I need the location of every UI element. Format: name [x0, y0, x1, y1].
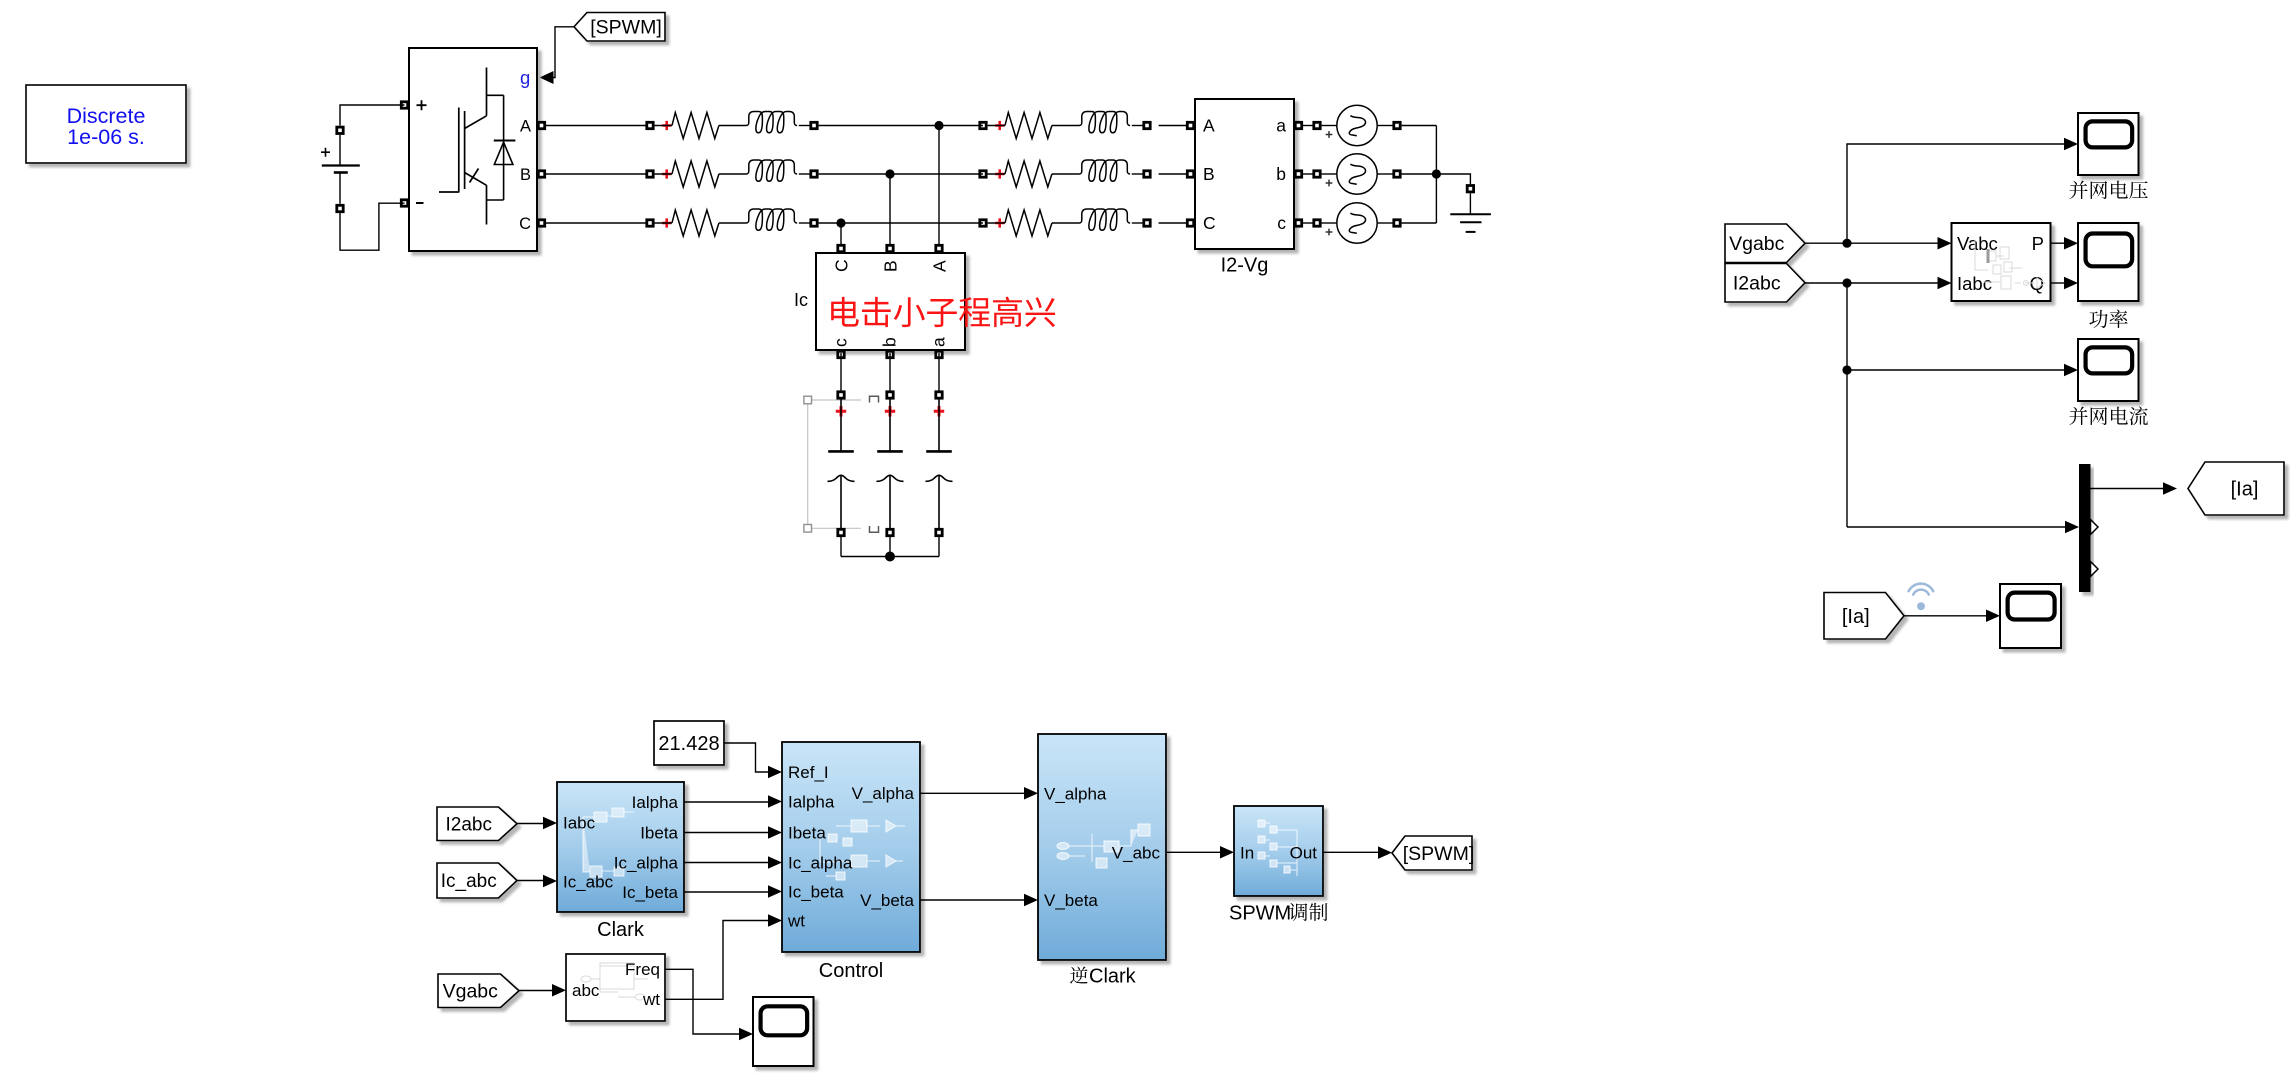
svg-text:Ibeta: Ibeta — [788, 824, 826, 843]
svg-text:V_alpha: V_alpha — [1044, 785, 1107, 804]
svg-text:Ic_alpha: Ic_alpha — [614, 854, 679, 873]
svg-text:Control: Control — [819, 960, 883, 982]
svg-text:Vgabc: Vgabc — [443, 981, 499, 1003]
svg-text:Ialpha: Ialpha — [788, 793, 835, 812]
svg-text:Iabc: Iabc — [563, 814, 596, 833]
svg-text:1e-06 s.: 1e-06 s. — [67, 125, 145, 149]
svg-text:B: B — [1203, 164, 1215, 184]
svg-text:[SPWM]: [SPWM] — [590, 17, 662, 39]
svg-text:V_beta: V_beta — [1044, 891, 1098, 910]
svg-text:c: c — [831, 338, 851, 347]
svg-text:C: C — [832, 259, 852, 272]
svg-text:[Ia]: [Ia] — [2231, 479, 2259, 501]
svg-text:Ic: Ic — [794, 290, 808, 310]
svg-text:In: In — [1240, 844, 1254, 863]
svg-text:Iabc: Iabc — [1957, 273, 1992, 294]
svg-text:c: c — [1277, 213, 1286, 233]
svg-text:Ic_beta: Ic_beta — [622, 883, 678, 902]
svg-text:b: b — [1276, 164, 1286, 184]
svg-text:a: a — [929, 337, 949, 347]
svg-text:abc: abc — [572, 981, 600, 1000]
svg-text:Ic_abc: Ic_abc — [441, 871, 497, 892]
svg-text:Ic_abc: Ic_abc — [563, 873, 614, 892]
svg-text:Out: Out — [1290, 844, 1318, 863]
svg-text:[SPWM]: [SPWM] — [1403, 843, 1475, 865]
svg-text:P: P — [2032, 233, 2044, 254]
svg-text:Clark: Clark — [597, 919, 645, 941]
svg-text:a: a — [1276, 116, 1286, 136]
svg-text:g: g — [520, 67, 530, 88]
svg-text:Vgabc: Vgabc — [1729, 233, 1785, 255]
svg-text:SPWM: SPWM — [1229, 903, 1291, 925]
svg-text:I2-Vg: I2-Vg — [1221, 255, 1269, 277]
svg-text:A: A — [520, 118, 531, 136]
svg-text:B: B — [881, 260, 901, 272]
svg-text:C: C — [1203, 213, 1216, 233]
svg-text:wt: wt — [787, 912, 805, 931]
svg-text:A: A — [930, 260, 950, 272]
svg-text:A: A — [1203, 116, 1215, 136]
svg-text:Clark: Clark — [1089, 966, 1137, 988]
svg-text:I2abc: I2abc — [1733, 273, 1781, 295]
svg-text:V_abc: V_abc — [1112, 844, 1161, 863]
svg-text:V_alpha: V_alpha — [852, 784, 915, 803]
svg-text:[Ia]: [Ia] — [1842, 606, 1870, 628]
svg-text:B: B — [520, 166, 531, 184]
svg-text:21.428: 21.428 — [658, 733, 719, 755]
svg-text:C: C — [519, 215, 531, 233]
svg-text:I2abc: I2abc — [446, 814, 492, 835]
svg-text:Freq: Freq — [625, 960, 660, 979]
svg-text:b: b — [880, 337, 900, 347]
svg-text:wt: wt — [642, 990, 660, 1009]
svg-text:Ibeta: Ibeta — [640, 824, 678, 843]
svg-text:Ic_beta: Ic_beta — [788, 883, 844, 902]
svg-text:Ialpha: Ialpha — [632, 793, 679, 812]
svg-text:Ref_I: Ref_I — [788, 763, 829, 782]
svg-text:V_beta: V_beta — [860, 891, 914, 910]
svg-text:Ic_alpha: Ic_alpha — [788, 854, 853, 873]
